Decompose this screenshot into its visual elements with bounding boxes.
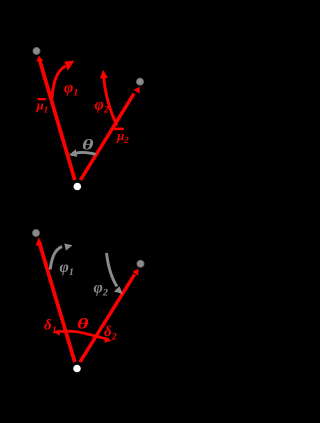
- observer (white dot): [74, 183, 82, 191]
- star 2 (gray dot): [137, 78, 144, 85]
- observer' (white dot): [73, 365, 81, 373]
- arrowhead: right arm 2 top: [132, 269, 138, 276]
- star 1' (gray dot): [33, 230, 40, 237]
- arrowhead of gray arc (left): [69, 149, 77, 157]
- label mu1 (red, on left arm): [38, 98, 47, 100]
- arrowhead red arc left: [53, 329, 60, 335]
- curved arrow mu1 (star 1 motion): [52, 66, 66, 98]
- arrowhead of gray curved arrow mu1': [64, 244, 72, 251]
- svg-text:θ: θ: [77, 317, 89, 333]
- gray angle arc theta: [71, 152, 96, 155]
- star 1 (gray dot): [33, 48, 40, 55]
- curved arrow mu2 (star 2 motion): [104, 75, 118, 126]
- arrowhead of curved arrow mu1: [64, 61, 74, 71]
- arrowhead: left arm 2 top: [36, 237, 43, 245]
- arrowhead of gray curved arrow mu2': [114, 286, 123, 294]
- arrowhead: left arm top: [36, 56, 43, 62]
- arrowhead red arc right: [105, 337, 112, 343]
- svg-text:θ: θ: [82, 138, 94, 154]
- wire: left arm (observer to star 1): [39, 58, 75, 180]
- wire: left arm 2: [40, 245, 75, 362]
- red wide angle arc: [56, 331, 109, 340]
- star 2' (gray dot): [137, 260, 144, 267]
- arrowhead top of curved arrow mu2: [100, 70, 108, 79]
- arrowhead bottom of curved arrow mu2: [114, 128, 124, 131]
- wire: right arm 2: [80, 275, 135, 363]
- arrowhead: right arm top: [134, 87, 140, 94]
- wire: right arm (observer to star 2): [81, 94, 135, 181]
- gray curved arrow mu2': [107, 253, 118, 287]
- gray curved arrow mu1': [50, 247, 62, 270]
